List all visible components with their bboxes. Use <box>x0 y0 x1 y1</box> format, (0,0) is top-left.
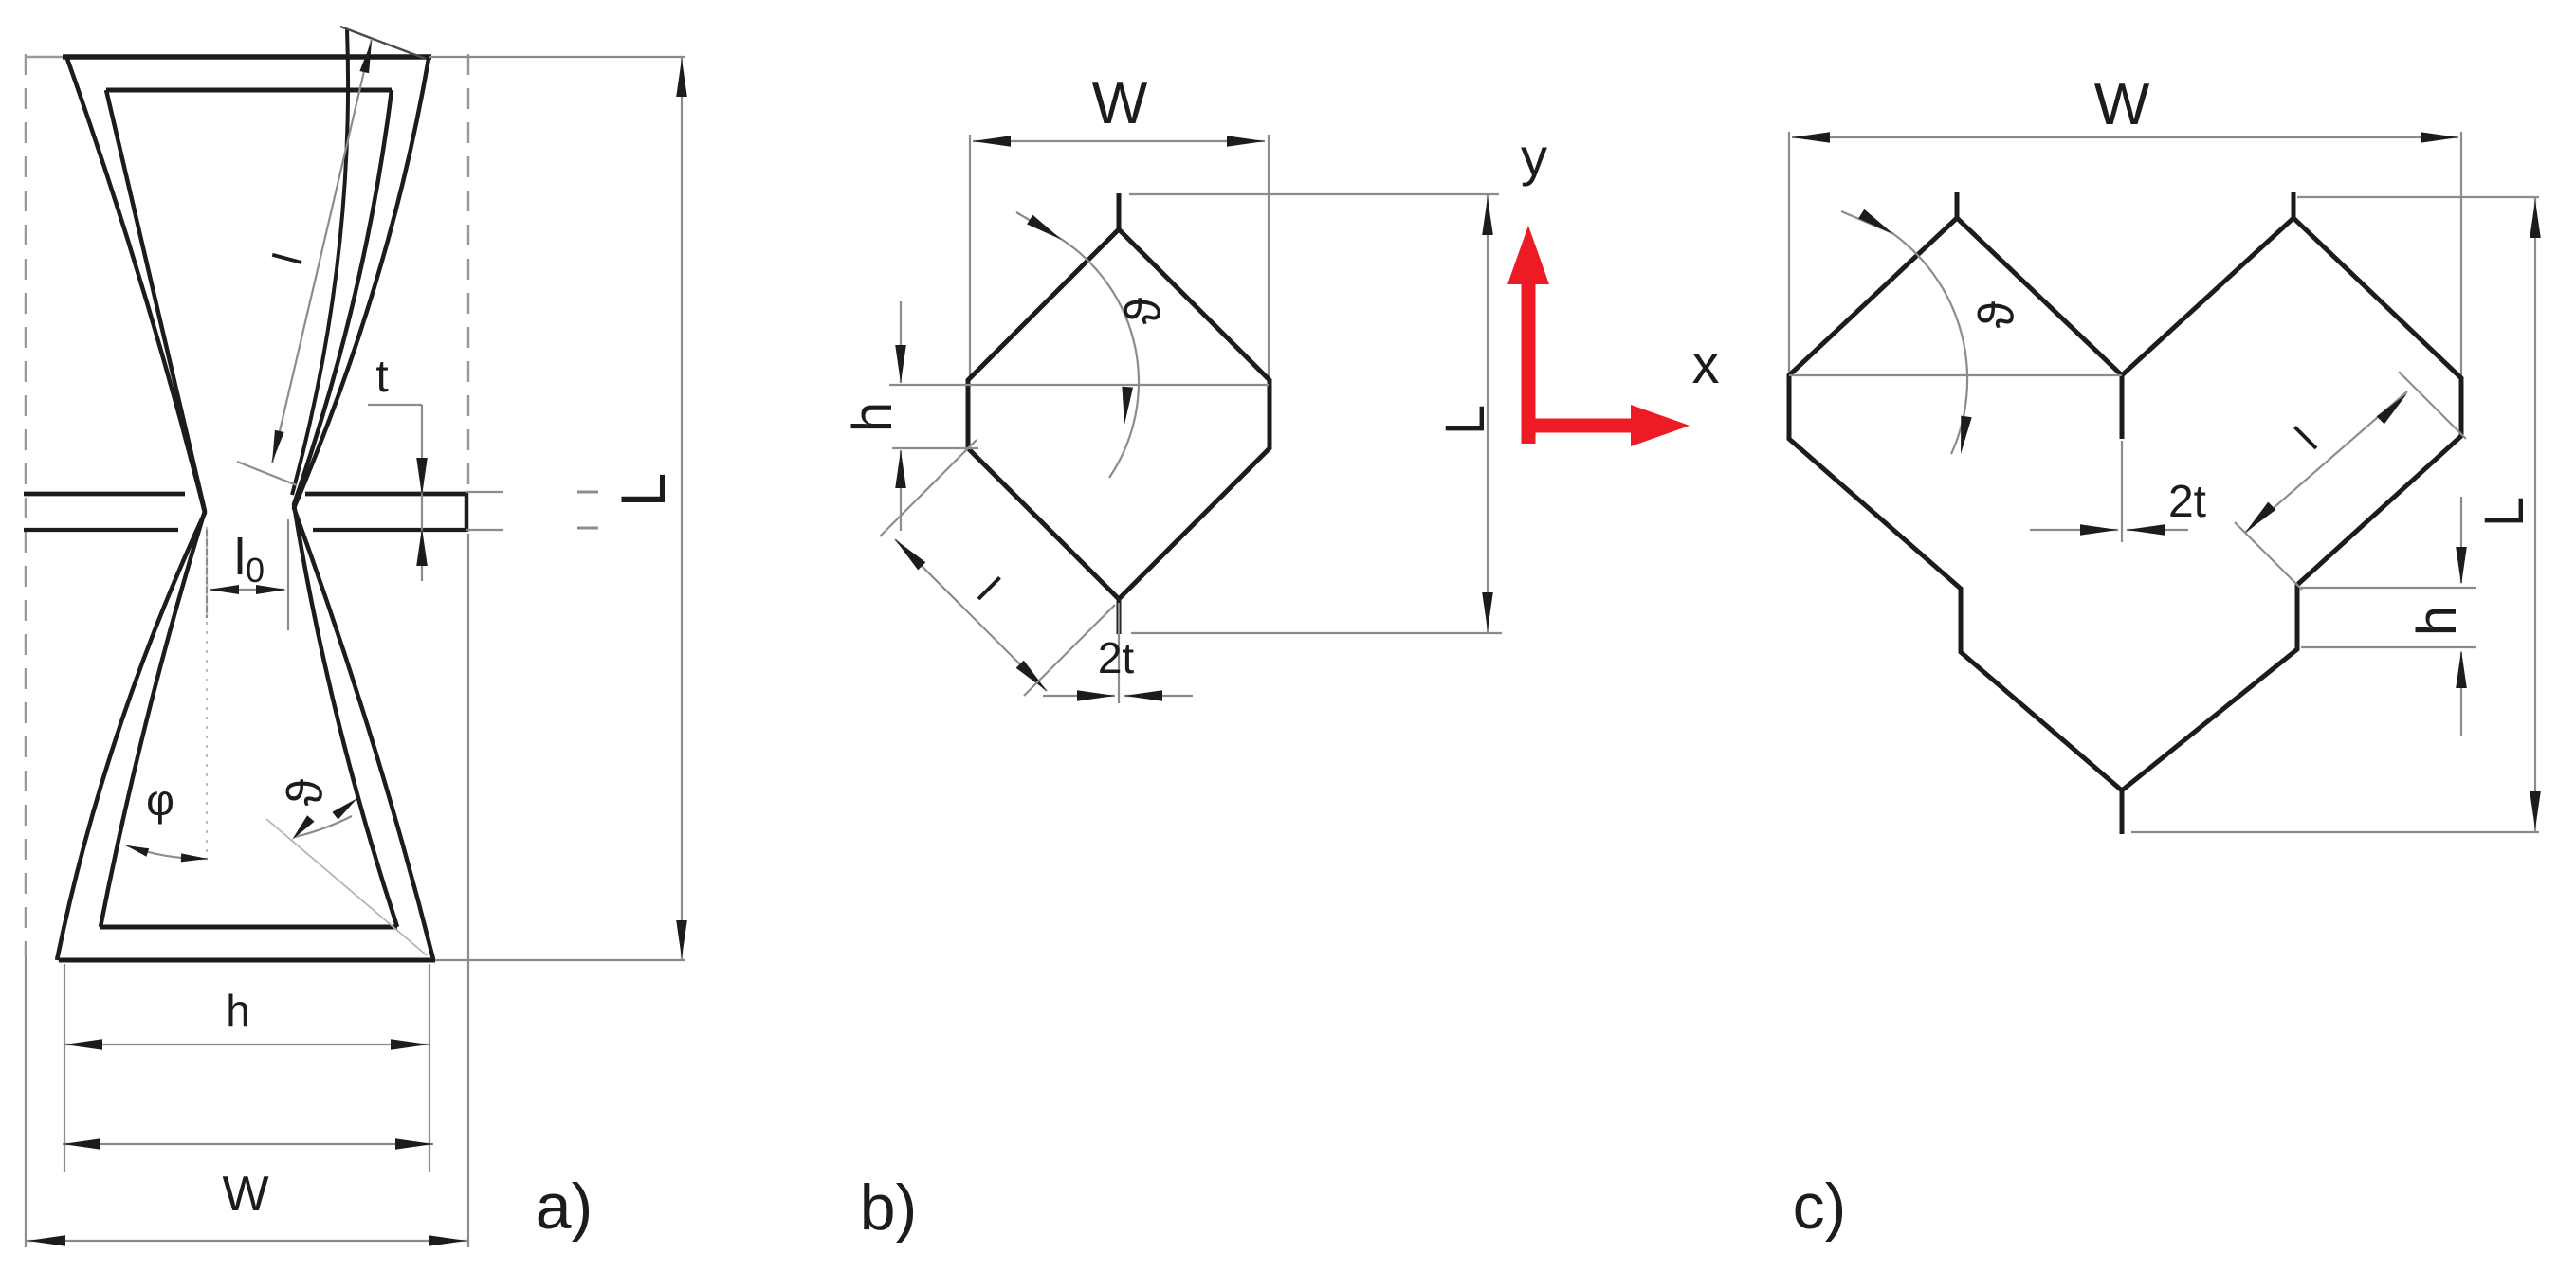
L dimension line <box>1487 194 1489 633</box>
l arrow upper <box>2377 393 2407 424</box>
y axis shaft <box>1522 280 1536 444</box>
mid horizontal reference <box>889 384 1269 386</box>
theta reference diagonal <box>266 819 427 955</box>
svg-text:y: y <box>1521 127 1547 187</box>
l0 arrow right <box>256 585 286 594</box>
h lower extension <box>2301 646 2476 648</box>
bar bottom edge right <box>313 528 466 532</box>
dashed extension line right <box>467 54 470 490</box>
W outer arrow left <box>27 1235 65 1246</box>
L arrow bottom <box>2530 791 2541 829</box>
left wall outer edge <box>57 59 205 960</box>
l dimension tick bottom <box>237 462 297 485</box>
W extension right <box>2460 132 2462 376</box>
phi dotted reference vertical <box>206 527 208 858</box>
h extension right <box>429 964 430 1172</box>
theta arc <box>295 816 352 837</box>
theta arrow upper <box>1858 209 1893 234</box>
W extension left <box>969 135 971 379</box>
L dimension line <box>2534 197 2536 832</box>
right wall inner edge <box>294 90 397 927</box>
h arrow left <box>64 1039 102 1050</box>
theta arrow lower <box>1122 387 1133 425</box>
center stub <box>2120 375 2125 439</box>
2t dimension line right <box>1124 695 1193 697</box>
h arrow shaft lower <box>900 450 902 531</box>
inner top line <box>106 88 392 93</box>
L dimension line <box>681 57 683 960</box>
svg-text:W: W <box>1092 71 1148 136</box>
mid horizontal reference <box>1789 374 2122 376</box>
L bottom extension <box>1131 632 1502 634</box>
h extension left <box>64 964 65 1172</box>
break mark upper <box>577 491 598 494</box>
h arrow shaft lower <box>2460 652 2462 736</box>
l0 extension left <box>206 527 208 618</box>
left peak stub <box>1955 192 1960 220</box>
W extension right <box>1268 135 1270 379</box>
top edge line <box>25 56 63 59</box>
inner bottom line <box>100 925 397 930</box>
l dimension line <box>2245 391 2407 533</box>
theta arc <box>1841 211 1967 454</box>
h arrow upper <box>2456 547 2467 585</box>
bottom extension to L dimension <box>435 959 685 961</box>
svg-text:ϑ: ϑ <box>1116 297 1171 324</box>
phi arrow right <box>181 853 208 862</box>
svg-text:ϑ: ϑ <box>278 778 333 806</box>
l dimension line <box>272 39 372 463</box>
L bottom extension <box>2131 831 2539 833</box>
W arrow left <box>973 136 1011 147</box>
x axis shaft <box>1523 419 1633 433</box>
t arrow lower <box>416 528 428 566</box>
2t arrow left <box>2080 524 2118 536</box>
bar bottom edge left <box>24 528 178 532</box>
top extension to L dimension <box>429 56 685 58</box>
svg-text:a): a) <box>536 1171 593 1243</box>
2t arrow left <box>1077 690 1115 701</box>
bar edge extension top <box>466 491 503 493</box>
heart cell outline <box>1789 218 2461 790</box>
theta arc <box>1016 212 1139 478</box>
h arrow shaft upper <box>2460 497 2462 583</box>
theta arrow upper <box>1027 215 1062 240</box>
phi arc <box>126 845 208 859</box>
h arrow lower <box>2456 650 2467 688</box>
y axis arrowhead <box>1507 226 1549 284</box>
2t dimension line left <box>2030 529 2118 531</box>
2t dimension line left <box>1043 695 1115 697</box>
svg-text:h: h <box>842 402 904 432</box>
svg-text:2t: 2t <box>1098 633 1135 682</box>
x axis arrowhead <box>1631 405 1690 446</box>
t dimension line <box>421 405 423 581</box>
dashed extension line left <box>25 54 27 956</box>
left wall inner edge <box>100 90 205 927</box>
2t stub extension <box>1118 603 1120 703</box>
svg-text:2t: 2t <box>2168 477 2206 527</box>
2t stub extension <box>2121 441 2123 542</box>
W dimension line <box>1792 136 2458 138</box>
svg-text:L: L <box>608 473 678 508</box>
bottom stub <box>1117 599 1122 634</box>
L arrow top <box>1482 197 1493 235</box>
W arrow right <box>1227 136 1265 147</box>
W arrow left <box>1792 132 1830 143</box>
W arrow right <box>2421 132 2458 143</box>
top stub <box>1117 193 1122 230</box>
l dimension arrow bottom <box>272 430 284 463</box>
right wall outer edge <box>294 59 433 959</box>
W outer dimension line <box>26 1240 468 1242</box>
svg-text:h: h <box>2406 606 2468 636</box>
h arrow upper <box>895 345 906 383</box>
bar top edge left <box>24 492 185 497</box>
h arrow lower <box>895 450 906 488</box>
L arrow top <box>676 59 687 97</box>
L top extension <box>2297 196 2539 198</box>
svg-text:L: L <box>2474 497 2535 527</box>
h lower extension <box>892 447 978 449</box>
l0 dimension line <box>210 589 284 591</box>
break mark lower <box>577 527 598 530</box>
theta arrow upper <box>332 798 357 820</box>
l tick lower <box>2235 522 2302 590</box>
svg-text:W: W <box>222 1167 268 1222</box>
W inner arrow left <box>63 1138 100 1150</box>
l tick upper <box>2399 372 2466 439</box>
l tick upper <box>880 440 977 536</box>
svg-text:c): c) <box>1793 1171 1847 1243</box>
W extension left <box>1788 132 1790 373</box>
svg-text:ϑ: ϑ <box>1969 300 2024 328</box>
W inner dimension line <box>63 1143 433 1145</box>
2t arrow right <box>2127 524 2165 536</box>
L arrow top <box>2530 200 2541 238</box>
extension line right lower <box>467 534 469 1247</box>
W outer arrow right <box>429 1235 466 1246</box>
svg-text:h: h <box>226 986 250 1035</box>
tilted strut top cap <box>340 27 426 59</box>
extension line left lower <box>25 956 27 1247</box>
right peak stub <box>2292 192 2296 220</box>
svg-text:t: t <box>375 352 388 402</box>
theta arrow lower <box>1961 416 1972 454</box>
bottom stub <box>2120 790 2125 834</box>
l dimension line <box>895 539 1047 691</box>
l dimension arrow top <box>359 41 372 73</box>
diamond cell outline <box>968 229 1270 599</box>
bar edge extension bottom <box>466 529 503 531</box>
l arrow lower <box>2245 502 2275 533</box>
svg-text:x: x <box>1692 334 1720 395</box>
t leader line <box>368 404 422 406</box>
L top extension <box>1129 193 1499 195</box>
2t arrow right <box>1124 690 1162 701</box>
bar right end cap <box>465 492 469 532</box>
bottom edge line <box>59 958 435 963</box>
L arrow bottom <box>1482 592 1493 630</box>
l tick lower <box>1024 605 1115 696</box>
l0 extension right <box>287 519 289 630</box>
tilted strut left edge <box>292 29 348 495</box>
phi arrow left <box>126 845 149 857</box>
bar top edge right <box>305 492 466 497</box>
l arrow upper <box>895 539 925 570</box>
l arrow lower <box>1016 661 1047 691</box>
svg-text:W: W <box>2094 72 2150 137</box>
2t dimension line right <box>2127 529 2188 531</box>
svg-text:b): b) <box>860 1172 917 1244</box>
t arrow upper <box>416 458 428 496</box>
l0 arrow left <box>209 585 239 594</box>
svg-text:φ: φ <box>146 775 174 825</box>
h arrow right <box>391 1039 429 1050</box>
svg-text:L: L <box>1434 405 1496 435</box>
h arrow shaft upper <box>900 301 902 383</box>
W dimension line <box>973 140 1265 142</box>
h upper extension <box>2301 587 2476 589</box>
L arrow bottom <box>676 920 687 958</box>
W inner arrow right <box>395 1138 433 1150</box>
theta arrow lower <box>292 815 315 840</box>
h dimension line <box>64 1044 429 1045</box>
